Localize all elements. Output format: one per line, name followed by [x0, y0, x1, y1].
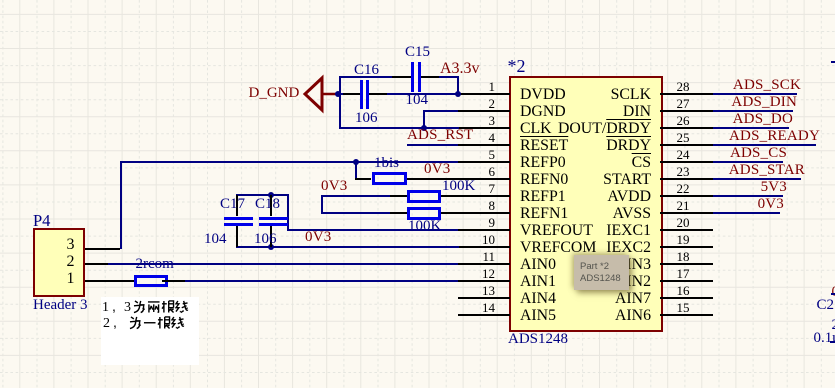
pin 21 stub wire [660, 212, 713, 214]
wire pin8 left segment [321, 212, 390, 214]
pin name DGND (pin 2) [520, 104, 566, 120]
pin name DOUT/DRDY (pin 26) [558, 121, 651, 137]
wire R100K-a to pin7 [441, 195, 459, 197]
cut-off net label 0V3 fragment [832, 285, 835, 299]
wire C16 right lead [369, 93, 387, 95]
wire net ADS_READY [713, 144, 816, 146]
wire net ADS_CS [713, 161, 783, 163]
pin number 17 [677, 268, 690, 280]
pin number 3 [489, 115, 496, 127]
pin name VREFCOM (pin 10) [520, 240, 596, 256]
pin name AIN3 (pin 18) [615, 257, 651, 273]
pin name DRDY (pin 25) [606, 138, 651, 154]
pin 17 stub wire [660, 280, 713, 282]
net label ADS_STAR [729, 163, 805, 177]
pin name REFP1 (pin 7) [520, 189, 566, 205]
net label ADS_DO [733, 112, 793, 126]
pin number 12 [482, 268, 495, 280]
designator P4 [33, 214, 50, 228]
net label 0V3 (pin7) [321, 179, 347, 193]
pin name SCLK (pin 28) [611, 87, 651, 103]
pin 11 stub wire [458, 263, 510, 265]
wire DGND pin2 (y111) [423, 110, 458, 112]
pin 28 stub wire [660, 93, 713, 95]
wire pin9 VREFOUT (y230) [287, 229, 459, 231]
wire pin5 REFP0 (y162) [120, 161, 459, 163]
wire R1bis left lead [355, 178, 371, 180]
pin number 18 [677, 251, 690, 263]
net label 0V3 [758, 197, 784, 211]
note text line 2: 2, wei yi gen xian [103, 316, 125, 330]
pin number 22 [677, 183, 690, 195]
cut-off value fragment 2 [832, 319, 835, 332]
note text background [101, 297, 199, 365]
pin number 11 [482, 251, 495, 263]
resistor R? "2rcom" [134, 275, 168, 287]
wire vertical x356.2 pin5 to R1bis [355, 162, 357, 179]
P4 pin number 3 [67, 238, 75, 252]
wire net 0V3 [713, 212, 780, 214]
wire net 5V3 [713, 195, 783, 197]
pin name CLK (pin 3) [520, 121, 552, 137]
pin name AIN5 (pin 14) [520, 308, 556, 324]
pin name CS (pin 24) [632, 155, 651, 171]
pin 12 stub wire [458, 280, 510, 282]
wire C16 to pin1 junction [387, 93, 459, 95]
pin 16 stub wire [660, 297, 713, 299]
wire vertical x287.6 [287, 195, 289, 230]
pin number 27 [677, 98, 690, 110]
pin name REFN1 (pin 8) [520, 206, 568, 222]
pin name AIN2 (pin 17) [615, 274, 651, 290]
designator C18 [255, 198, 280, 211]
wire A3.3v rail left segment (y77) [339, 76, 393, 78]
wire C16 left lead [343, 93, 360, 95]
pin 1 stub wire [458, 93, 510, 95]
pin number 15 [677, 302, 690, 314]
value 106 (C16) [355, 112, 378, 125]
wire net ADS_DO [713, 127, 789, 129]
pin number 13 [482, 285, 495, 297]
pin 19 stub wire [660, 246, 713, 248]
pin 24 stub wire [660, 161, 713, 163]
wire C15 left lead [392, 76, 411, 78]
pin number 16 [677, 285, 690, 297]
pin name START (pin 23) [603, 172, 651, 188]
net label 0V3 (pin10) [305, 230, 331, 244]
pin 7 stub wire [458, 195, 510, 197]
wire vertical x120.8 to P4 pin3 [120, 162, 122, 249]
wire vertical x322 joining pins7-8 [321, 196, 323, 213]
wire P4 pin1 stub+R2rcom left lead [84, 280, 134, 282]
pin name AVDD (pin 22) [607, 189, 651, 205]
wire R100K-a left lead [390, 195, 407, 197]
net label ADS_RST [407, 128, 473, 142]
value label 1bis [374, 157, 399, 170]
resistor R? 100K (bottom) [407, 207, 441, 220]
tooltip Part *2 / ADS1248 [574, 255, 629, 290]
wire C15 right lead [421, 76, 440, 78]
net label 5V3 [761, 180, 787, 194]
pin 23 stub wire [660, 178, 713, 180]
power port D_GND symbol (triangle) [300, 74, 345, 114]
P4 pin number 2 [67, 255, 75, 269]
connector P4 body [33, 228, 85, 297]
cut-off wire fragment2 [830, 341, 835, 343]
op-amp U? : ADS1248 IC body [509, 76, 663, 332]
pin number 28 [677, 81, 690, 93]
wire net ADS_STAR [713, 178, 801, 180]
pin number 25 [677, 132, 690, 144]
pin 13 stub wire [458, 297, 510, 299]
pin name IEXC2 (pin 19) [606, 240, 651, 256]
pin name IEXC1 (pin 20) [606, 223, 651, 239]
wire R2rcom right lead [162, 280, 185, 282]
pin 15 stub wire [660, 314, 713, 316]
wire R100K-b to pin8 [441, 212, 459, 214]
wire P4 pin3 stub [84, 248, 120, 250]
power label D_GND [249, 87, 300, 100]
value label 100K (bottom) [408, 220, 441, 233]
wire R100K-b left lead [390, 212, 407, 214]
cut-off designator C2x [817, 299, 835, 312]
wire pin10 VREFCOM (y247) [236, 246, 459, 248]
pin 6 stub wire [458, 178, 510, 180]
pin number 21 [677, 200, 690, 212]
pin name DIN (pin 27) [623, 104, 651, 120]
C17 top lead [236, 195, 238, 217]
pin name DVDD (pin 1) [520, 87, 566, 103]
pin name AIN1 (pin 12) [520, 274, 556, 290]
wire net ADS_RST (pin4) [407, 144, 458, 146]
net label ADS_DIN [731, 95, 797, 109]
value 104 (C17) [204, 233, 227, 246]
C18 top lead [270, 195, 272, 217]
pin name VREFOUT (pin 9) [520, 223, 593, 239]
pin 14 stub wire [458, 314, 510, 316]
pin name REFP0 (pin 5) [520, 155, 566, 171]
net label ADS_SCK [733, 78, 801, 92]
pin number 26 [677, 115, 690, 127]
capacitor C16 [360, 80, 363, 109]
pin name AVSS (pin 21) [613, 206, 651, 222]
pin number 19 [677, 234, 690, 246]
wire pin3 row (y128) [339, 127, 459, 129]
pin name AIN6 (pin 15) [615, 308, 651, 324]
pin number 9 [489, 217, 496, 229]
designator C15 [405, 46, 430, 59]
wire D_GND to C16 (y94) [337, 93, 343, 95]
resistor R? 100K (top) [407, 190, 441, 203]
wire R2rcom to AIN1 (y281) [185, 280, 459, 282]
pin 4 stub wire [458, 144, 510, 146]
designator text *2 [508, 58, 526, 74]
cut-off value 0.1u [814, 332, 835, 345]
C18 bottom lead [270, 226, 272, 248]
wire A3.3v rail right segment [439, 76, 459, 78]
pin number 2 [489, 98, 496, 110]
pin 3 stub wire [458, 127, 510, 129]
pin 10 stub wire [458, 246, 510, 248]
pin number 14 [482, 302, 495, 314]
junction at D_GND node [335, 91, 341, 97]
pin number 8 [489, 200, 496, 212]
value label 100K (top) [442, 180, 475, 193]
wire R1bis to pin6 [407, 178, 459, 180]
wire net ADS_DIN [713, 110, 793, 112]
pin number 7 [489, 183, 496, 195]
pin number 1 [489, 81, 496, 93]
value 104 (C15) [406, 94, 429, 107]
value label 2rcom [136, 258, 174, 271]
wire P4 pin2 stub [84, 263, 108, 265]
capacitor C15 [411, 62, 414, 92]
junction pin2/pin3 node [421, 125, 427, 131]
designator C17 [220, 198, 245, 211]
wire vertical x457.5 joining rails [457, 77, 459, 94]
pin 20 stub wire [660, 229, 713, 231]
pin 27 stub wire [660, 110, 713, 112]
net label ADS_CS [730, 146, 787, 160]
designator C16 [354, 64, 379, 77]
wire pin7 left segment [321, 195, 390, 197]
pin 18 stub wire [660, 263, 713, 265]
pin 2 stub wire [458, 110, 510, 112]
cut-off wire fragment1 [831, 293, 835, 295]
power net label A3.3v [440, 62, 480, 76]
wire P4 pin2 to AIN0 (y264) [108, 263, 459, 265]
resistor R? "1bis" [372, 172, 407, 185]
net label ADS_READY [729, 129, 820, 143]
pin 22 stub wire [660, 195, 713, 197]
cut-off wire fragment top-right [831, 61, 835, 63]
pin 25 stub wire [660, 144, 713, 146]
pin name AIN7 (pin 16) [615, 291, 651, 307]
junction C18 top [268, 192, 274, 198]
pin number 20 [677, 217, 690, 229]
pin name REFN0 (pin 6) [520, 172, 568, 188]
value 106 (C18) [254, 233, 277, 246]
part name Header 3 [33, 298, 88, 312]
pin 5 stub wire [458, 161, 510, 163]
C17 bottom lead [236, 226, 238, 248]
wire C17-C18 top rail (y194.8) [236, 194, 289, 196]
junction C18 bottom [268, 244, 274, 250]
pin name AIN4 (pin 13) [520, 291, 556, 307]
net label 0V3 (pin6) [424, 162, 450, 176]
pin 8 stub wire [458, 212, 510, 214]
part name ADS1248 [508, 332, 568, 346]
pin number 24 [677, 149, 690, 161]
wire vertical x424.4 pin2-pin3 [423, 111, 425, 128]
junction at pin1 node [455, 91, 461, 97]
pin number 5 [489, 149, 496, 161]
pin number 4 [489, 132, 496, 144]
pin number 10 [482, 234, 495, 246]
pin number 23 [677, 166, 690, 178]
wire net ADS_SCK [713, 93, 797, 95]
pin name AIN0 (pin 11) [520, 257, 556, 273]
wire vertical at x339.5 (D_GND down to pin3 row) [339, 77, 341, 128]
note text line 1: 1, 3 wei liang gen xian [102, 300, 131, 314]
pin name RESET (pin 4) [520, 138, 568, 154]
junction pin5 / R 1bis [353, 159, 359, 165]
pin 26 stub wire [660, 127, 713, 129]
pin 9 stub wire [458, 229, 510, 231]
P4 pin number 1 [67, 272, 75, 286]
pin number 6 [489, 166, 496, 178]
